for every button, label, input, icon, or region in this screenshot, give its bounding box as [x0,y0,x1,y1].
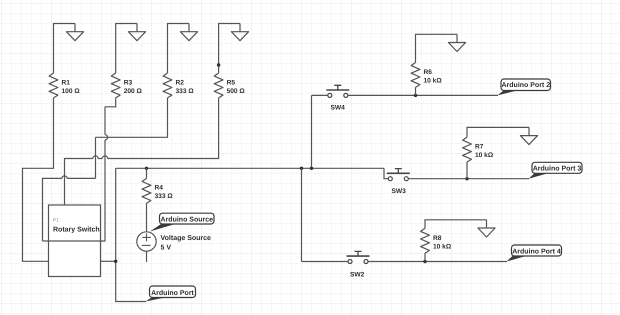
node dot rotary common [114,260,117,263]
svg-text:333 Ω: 333 Ω [176,88,195,95]
wire main bus horizontal [116,167,384,169]
wire horizontal 178 to rotary feed [43,178,96,241]
svg-text:10 kΩ: 10 kΩ [475,152,494,159]
svg-text:Arduino Port 4: Arduino Port 4 [512,247,561,255]
svg-text:5 V: 5 V [161,245,172,252]
svg-text:R4: R4 [155,185,164,192]
svg-text:R8: R8 [433,235,442,242]
resistor R6 [411,63,420,88]
resistor R1 [49,73,58,98]
rotary switch P1 box [49,205,101,277]
wire SW4 row left [312,94,328,96]
wire R1 bottom to rotary switch left lower pin [23,98,54,262]
wire vertical x95.5 down [95,137,97,178]
switch SW3 [387,169,410,181]
wire R3 bottom jog [105,98,116,107]
wire R1 top to ground [54,24,76,74]
flag Arduino Port 4 [507,245,562,262]
node dot R4 top [145,167,148,170]
resistor R8 [421,228,430,253]
resistor R3 [111,73,120,98]
ground G4 [231,24,248,41]
node dot SW2 riser [300,167,303,170]
svg-text:R3: R3 [124,80,133,87]
wire hop at 64.5,178 [62,176,67,179]
svg-text:10 kΩ: 10 kΩ [433,243,452,250]
voltage source plus sign [142,233,151,241]
svg-text:333 Ω: 333 Ω [155,193,174,200]
svg-text:R1: R1 [62,80,71,87]
svg-text:SW3: SW3 [392,188,407,195]
flag Arduino Port 3 [529,162,583,178]
wire mid bus vertical [116,168,146,301]
wire R6 bottom lead [415,87,417,95]
rotary switch wiper line [43,240,106,242]
wire R8 top to ground [425,220,487,229]
ground G2 [128,24,145,41]
wire SW4 riser [311,95,313,168]
wire R4 bottom to source [146,203,148,232]
voltage source V1 circle [137,232,156,251]
wire R7 top to ground [467,127,529,137]
wire SW3 step [384,168,388,178]
svg-text:P1: P1 [53,218,59,224]
node dot R8 bottom [423,260,426,263]
node dot R6 bottom [414,94,417,97]
wire R5 bottom to horizontal 158 [65,98,219,205]
wire SW2 row left [302,261,349,263]
svg-text:Arduino Port 3: Arduino Port 3 [533,165,582,173]
wire SW2 riser [301,168,303,261]
svg-text:SW4: SW4 [331,105,346,112]
svg-text:10 kΩ: 10 kΩ [424,78,443,85]
wire R3 vertical down [104,107,106,241]
switch SW2 [347,251,370,263]
flag Arduino Port 2 [498,79,551,95]
resistor R2 [163,73,172,98]
wire R2 top to ground [168,24,190,74]
svg-text:R2: R2 [176,80,185,87]
switch SW4 [326,85,349,97]
wire hop vertical at 137 [105,135,108,140]
ground G5 [448,34,465,51]
wire R5 top to ground [219,24,240,74]
svg-text:R7: R7 [475,144,484,151]
ground G7 [478,220,495,237]
svg-text:Voltage Source: Voltage Source [161,234,212,242]
node dot SW4 riser [310,167,313,170]
svg-text:Arduino Port 2: Arduino Port 2 [501,81,550,89]
svg-text:R6: R6 [424,69,433,76]
wire SW2 row right [368,261,507,263]
wire rotary right lower pin to node [101,260,116,262]
ground G6 [520,127,537,144]
ground G3 [180,24,197,41]
svg-text:R5: R5 [227,80,236,87]
wire R6 top to ground [416,34,458,62]
voltage source minus sign [142,244,151,246]
wire SW3 row right [408,178,529,180]
node dot R7 bottom [465,177,468,180]
wire R4 top lead [146,168,148,178]
svg-text:Rotary Switch: Rotary Switch [53,226,100,234]
svg-text:SW2: SW2 [350,272,365,279]
wire R2 bottom to horizontal 137 [96,98,168,138]
resistor R4 [142,178,151,203]
resistor R5 [214,73,223,98]
node dot R5 lead [217,63,220,66]
svg-text:Arduino Port: Arduino Port [151,289,194,297]
flag Arduino Source [150,213,214,231]
resistor R7 [463,137,472,162]
wire R3 top to ground [116,24,137,74]
svg-text:Arduino Source: Arduino Source [161,216,214,224]
svg-text:200 Ω: 200 Ω [124,88,143,95]
ground G1 [66,24,83,41]
svg-text:500 Ω: 500 Ω [227,88,246,95]
svg-text:100 Ω: 100 Ω [62,88,81,95]
wire R8 bottom lead [424,253,426,262]
wire hop at 105,158 [102,156,107,159]
wire SW4 row right [348,94,498,96]
flag Arduino Port [146,286,196,302]
wire hop at 95.5,158 [93,156,98,159]
wire source bottom stub [146,251,148,262]
wire R7 bottom lead [466,162,468,179]
